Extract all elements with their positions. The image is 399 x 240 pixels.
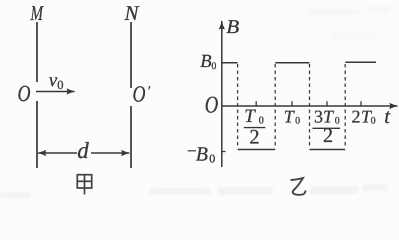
square wave: B0 segment 1 (first positive half) (222, 62, 238, 64)
tick at T0/2 on t axis (255, 101, 257, 106)
tick at T0 on t axis (291, 101, 293, 106)
svg-text:0: 0 (209, 152, 215, 166)
svg-text:O: O (205, 93, 219, 119)
tick at 2T0 on t axis (360, 101, 362, 106)
svg-text:0: 0 (57, 78, 63, 92)
tick at 3T0/2 on t axis (326, 101, 328, 106)
svg-text:B: B (226, 17, 239, 38)
svg-text:T: T (244, 106, 256, 127)
square wave: -B0 segment 2 (310, 149, 346, 151)
plate N (right vertical line, upper segment) (130, 22, 132, 88)
plate M (left vertical line, lower segment below slit O) (36, 101, 38, 168)
label 2T0 (352, 106, 376, 126)
svg-text:0: 0 (259, 115, 264, 126)
svg-text:0: 0 (295, 116, 300, 127)
svg-text:3: 3 (314, 106, 323, 126)
svg-text:N: N (124, 1, 140, 25)
label 3T0/2 (fraction) (313, 106, 341, 147)
svg-text:M: M (30, 1, 44, 25)
label T0/2 (fraction) (244, 106, 265, 149)
dimension arrow d (right half, arrowhead at plate N) (91, 152, 129, 154)
square wave: -B0 segment 1 (238, 149, 276, 151)
svg-text:2: 2 (352, 106, 361, 126)
svg-text:2: 2 (249, 127, 259, 149)
svg-text:0: 0 (371, 116, 376, 127)
dashed transition at third switch (309, 64, 311, 148)
dashed transition at first switch (237, 64, 239, 148)
svg-text:0: 0 (211, 61, 216, 72)
plate M (left vertical line, upper segment) (36, 22, 38, 82)
caption 甲 (figure 1) (77, 175, 91, 195)
svg-text:2: 2 (323, 125, 333, 147)
caption 乙 (figure 2) (291, 178, 306, 195)
dashed transition at second switch (274, 64, 276, 148)
tick at -B0 on B axis (222, 151, 226, 153)
svg-text:0: 0 (335, 116, 340, 127)
dashed transition at fourth switch (344, 64, 346, 148)
square wave: B0 segment 2 (275, 62, 309, 64)
label T0 (284, 106, 300, 126)
velocity arrow v0 (36, 91, 75, 93)
svg-text:O: O (18, 81, 31, 106)
svg-text:B: B (196, 144, 208, 166)
svg-text:O: O (133, 82, 146, 107)
svg-text:B: B (200, 52, 211, 72)
t axis (horizontal) (222, 105, 397, 107)
dimension arrow d (left half, arrowhead at plate M) (38, 152, 77, 154)
faint page ghosting at bottom (0, 6, 390, 198)
svg-text:d: d (77, 138, 89, 163)
plate N (right vertical line, lower segment below slit O') (130, 106, 132, 168)
B axis (vertical) (221, 21, 223, 167)
square wave: B0 segment 3 (345, 61, 376, 63)
